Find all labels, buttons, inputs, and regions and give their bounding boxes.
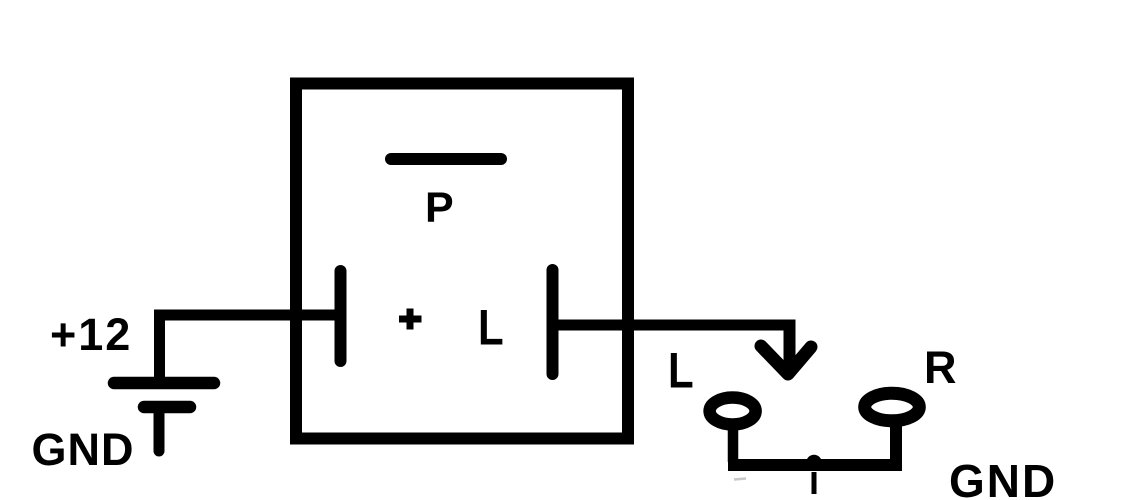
wire L terminal to arrow	[553, 320, 796, 331]
svg-text:GND: GND	[32, 424, 135, 475]
wire lamp L down	[728, 424, 739, 462]
svg-text:P: P	[425, 184, 454, 232]
arrow stem	[784, 320, 796, 368]
ground stub	[154, 410, 165, 451]
relay box U1	[296, 84, 628, 439]
lamp R bulb	[865, 393, 920, 421]
arrow head	[761, 346, 811, 374]
svg-text:GND: GND	[949, 455, 1057, 500]
wire lamp R down	[890, 420, 902, 462]
svg-text:+12: +12	[50, 309, 132, 360]
wire +12 to left terminal	[160, 315, 337, 382]
svg-text:L: L	[478, 299, 504, 355]
terminal bar + (left contact)	[335, 271, 347, 361]
junction dot	[806, 455, 822, 471]
ground tick	[812, 472, 817, 494]
lamp L bulb	[710, 398, 756, 425]
wire bottom bus	[728, 459, 902, 471]
smudge artifact	[734, 479, 746, 480]
coil plate P	[391, 153, 501, 165]
svg-text:R: R	[924, 342, 957, 393]
terminal bar L (right contact)	[547, 270, 559, 374]
label +	[399, 316, 422, 323]
svg-text:L: L	[668, 342, 694, 398]
battery short plate	[144, 401, 190, 414]
battery long plate	[114, 377, 214, 390]
